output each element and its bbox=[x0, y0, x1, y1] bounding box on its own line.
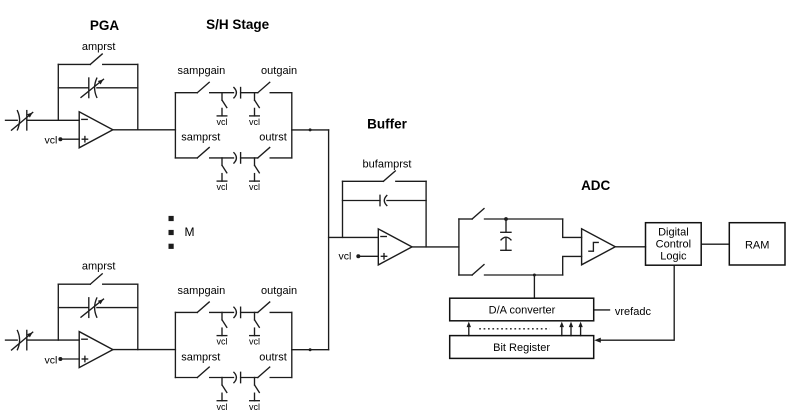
svg-text:M: M bbox=[185, 225, 195, 239]
svg-text:vcl: vcl bbox=[249, 337, 260, 347]
svg-text:S/H Stage: S/H Stage bbox=[206, 17, 270, 32]
svg-text:outrst: outrst bbox=[259, 351, 287, 363]
svg-text:RAM: RAM bbox=[745, 239, 769, 251]
svg-text:PGA: PGA bbox=[90, 18, 120, 33]
svg-text:vrefadc: vrefadc bbox=[615, 306, 652, 318]
svg-text:vcl: vcl bbox=[249, 117, 260, 127]
svg-text:ADC: ADC bbox=[581, 178, 610, 193]
svg-text:samprst: samprst bbox=[181, 351, 220, 363]
svg-text:outrst: outrst bbox=[259, 132, 287, 144]
svg-text:sampgain: sampgain bbox=[178, 65, 226, 77]
svg-text:vcl: vcl bbox=[249, 402, 260, 412]
svg-text:vcl: vcl bbox=[217, 182, 228, 192]
svg-text:outgain: outgain bbox=[261, 65, 297, 77]
svg-text:D/A converter: D/A converter bbox=[489, 304, 556, 316]
svg-text:vcl: vcl bbox=[217, 117, 228, 127]
svg-text:vcl: vcl bbox=[338, 251, 351, 263]
svg-text:vcl: vcl bbox=[217, 337, 228, 347]
svg-text:Control: Control bbox=[656, 239, 691, 251]
svg-text:Digital: Digital bbox=[658, 226, 689, 238]
svg-text:bufamprst: bufamprst bbox=[363, 159, 412, 171]
svg-text:samprst: samprst bbox=[181, 132, 220, 144]
svg-text:vcl: vcl bbox=[249, 182, 260, 192]
svg-text:Buffer: Buffer bbox=[367, 116, 407, 131]
svg-text:Bit Register: Bit Register bbox=[493, 342, 550, 354]
svg-text:vcl: vcl bbox=[217, 402, 228, 412]
svg-text:outgain: outgain bbox=[261, 285, 297, 297]
svg-text:Logic: Logic bbox=[660, 251, 687, 263]
svg-text:sampgain: sampgain bbox=[178, 285, 226, 297]
svg-text:vcl: vcl bbox=[45, 135, 58, 147]
svg-text:amprst: amprst bbox=[82, 41, 116, 53]
svg-text:amprst: amprst bbox=[82, 261, 116, 273]
svg-text:vcl: vcl bbox=[45, 354, 58, 366]
